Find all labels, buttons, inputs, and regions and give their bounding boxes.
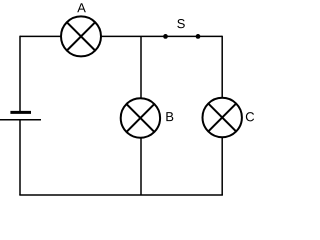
label C (246, 112, 254, 121)
lamp A (61, 16, 101, 56)
battery positive plate (10, 111, 31, 114)
wire right vertical (221, 36, 223, 195)
switch S (163, 34, 200, 39)
battery negative plate (0, 119, 41, 121)
wire bottom horizontal (19, 194, 223, 196)
wire top horizontal (20, 35, 222, 37)
wire middle vertical (140, 36, 142, 195)
label A (77, 3, 86, 12)
wire left vertical upper (19, 36, 21, 112)
wire left vertical lower (19, 120, 21, 195)
lamp C (203, 98, 242, 137)
lamp B (121, 98, 160, 137)
label B (166, 112, 173, 121)
label S (177, 19, 184, 28)
